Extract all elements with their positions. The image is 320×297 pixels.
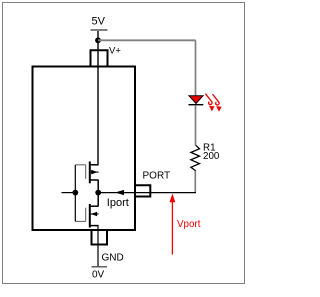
gate lead [75, 220, 85, 222]
NMOS source wire down to GND bar [97, 226, 99, 267]
wire 5V down into IC (V+ supply) [97, 31, 99, 165]
drain stub (top) [90, 164, 99, 166]
PORT pin wire into IC [98, 192, 150, 194]
channel bar [89, 161, 91, 183]
Iport current arrow [115, 190, 124, 195]
0V ground bar [92, 266, 108, 268]
0V label [92, 270, 105, 281]
gate lead [75, 164, 85, 166]
wire 5V to LED (gray, top horizontal) [98, 39, 196, 41]
gate plate [85, 208, 87, 222]
GND pin tab [92, 230, 108, 245]
gate node junction [72, 190, 78, 196]
svg-text:200: 200 [203, 151, 220, 162]
svg-text:GND: GND [102, 252, 124, 263]
LED light emission arrows (red) [205, 94, 221, 112]
V+ label [109, 46, 121, 57]
Vport label (red) [177, 219, 201, 230]
drain stub (top) [90, 205, 99, 207]
IC box (port output stage) [33, 67, 136, 231]
source stub (bottom) [90, 225, 99, 227]
svg-text:Vport: Vport [177, 219, 201, 230]
gate bus wire (connects both gates) [74, 165, 76, 222]
PORT label [143, 171, 171, 182]
channel bar [89, 204, 91, 228]
transistor Q2 (lower NMOS) [75, 193, 98, 228]
wire PORT line to R1 corner [150, 192, 196, 194]
5V power rail bar [91, 29, 108, 31]
wire down to LED anode [195, 40, 197, 96]
LED D1 (red, cathode down) [189, 96, 204, 105]
GND label [102, 252, 124, 263]
transistor Q1 (upper PMOS) [75, 161, 98, 192]
wire R1 lead down to PORT node (gray) [194, 171, 196, 192]
bulk arrow stub [90, 171, 99, 173]
Vport red arrow [170, 194, 176, 255]
R1 value labels [203, 143, 220, 163]
svg-text:V+: V+ [109, 46, 121, 57]
5V power label [92, 16, 106, 28]
svg-text:5V: 5V [92, 16, 106, 28]
svg-text:PORT: PORT [143, 171, 171, 182]
node junction at 5V [95, 37, 101, 43]
bulk arrow stub [90, 213, 99, 215]
output node junction [95, 190, 101, 196]
drain wire up to output node [97, 193, 99, 207]
resistor R1 zigzag [191, 145, 200, 171]
Iport label [107, 197, 129, 209]
gate plate [85, 165, 87, 179]
wire LED cathode to R1 [195, 105, 197, 146]
border frame (decorative) [3, 3, 245, 284]
gate input wire [62, 192, 76, 194]
svg-text:Iport: Iport [107, 197, 129, 209]
V+ pin tab [91, 50, 108, 66]
source stub (bottom) [90, 179, 99, 181]
svg-text:0V: 0V [92, 270, 105, 281]
PORT pin tab [135, 185, 150, 196]
drain wire down to output node [97, 180, 99, 193]
